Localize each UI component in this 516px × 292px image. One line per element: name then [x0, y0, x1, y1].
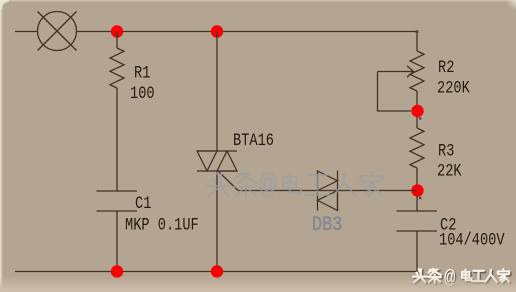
node top junction R1 [111, 25, 123, 37]
node top junction triac [211, 25, 223, 37]
wire R2 bottom lead [416, 91, 418, 111]
svg-text:R1: R1 [134, 63, 150, 83]
wire R1 top lead [116, 32, 118, 49]
svg-text:R3: R3 [438, 141, 454, 161]
wire bottom rail [15, 271, 418, 273]
svg-text:22K: 22K [437, 161, 462, 181]
svg-text:MKP 0.1UF: MKP 0.1UF [125, 215, 199, 235]
capacitor C1 [97, 191, 138, 211]
wire C2 bottom lead [416, 231, 418, 272]
lamp EL1 [38, 12, 77, 51]
wire C2 top lead [416, 196, 418, 211]
svg-text:@: @ [259, 169, 277, 203]
wire C1 bottom lead [116, 211, 118, 272]
wire right branch drop to R2 [416, 32, 418, 52]
wire top-left AC lead [15, 31, 38, 33]
svg-text:220K: 220K [437, 78, 470, 98]
potentiometer R2 [410, 51, 424, 91]
wire R2 wiper bypass [378, 72, 412, 112]
watermark badge @电工人家 [462, 269, 511, 284]
wire top rail [77, 31, 418, 33]
svg-text:100: 100 [130, 84, 155, 104]
node bottom junction triac [211, 265, 223, 277]
svg-text:DB3: DB3 [312, 213, 342, 237]
svg-text:BTA16: BTA16 [233, 131, 274, 151]
node bottom junction C1 [111, 265, 123, 277]
wire triac bottom lead [216, 171, 218, 272]
resistor R3 [410, 128, 424, 168]
node top-right corner dot [416, 30, 419, 33]
capacitor C2 [397, 211, 438, 231]
wire gate diagonal [218, 171, 238, 191]
wire gate to DB3 and on to junction [238, 190, 417, 192]
watermark badge 头条 [413, 269, 442, 284]
wiper arrow of R2 [378, 66, 414, 77]
svg-text:104/400V: 104/400V [439, 230, 505, 250]
triac BTA16 [197, 151, 237, 171]
wire R3 top lead [416, 117, 418, 128]
svg-text:C1: C1 [135, 194, 151, 214]
diac DB3 [318, 171, 338, 211]
watermark center 头条@电工人家 [207, 172, 383, 197]
node junction R2/R3 [411, 105, 423, 117]
svg-text:R2: R2 [438, 58, 454, 78]
node junction R3/C2/DB3 [411, 184, 423, 196]
resistor R1 [110, 48, 124, 88]
wire R3 bottom lead [416, 168, 418, 191]
wire triac top lead [216, 32, 218, 152]
wire R1 to C1 [116, 88, 118, 191]
